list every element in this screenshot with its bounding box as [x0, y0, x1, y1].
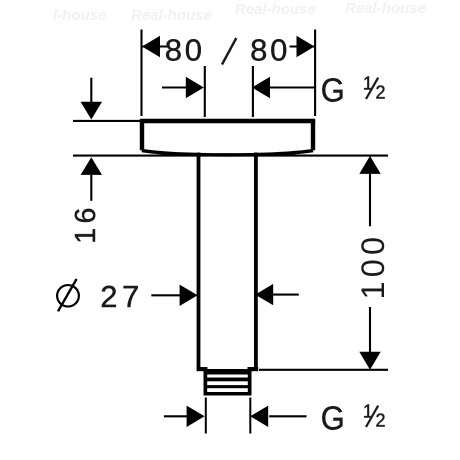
svg-text:80: 80 [165, 32, 205, 67]
svg-text:2: 2 [376, 83, 386, 103]
svg-text:l-house: l-house [53, 7, 106, 24]
svg-text:2: 2 [376, 411, 386, 431]
svg-text:100: 100 [355, 233, 391, 300]
svg-text:80: 80 [250, 32, 290, 67]
svg-text:27: 27 [100, 279, 143, 314]
svg-text:G: G [321, 71, 345, 108]
svg-text:Real-house: Real-house [131, 7, 212, 24]
svg-text:Real-house: Real-house [235, 1, 316, 18]
svg-text:Real-house: Real-house [345, 0, 426, 17]
svg-text:G: G [321, 399, 345, 436]
svg-text:16: 16 [70, 203, 102, 244]
